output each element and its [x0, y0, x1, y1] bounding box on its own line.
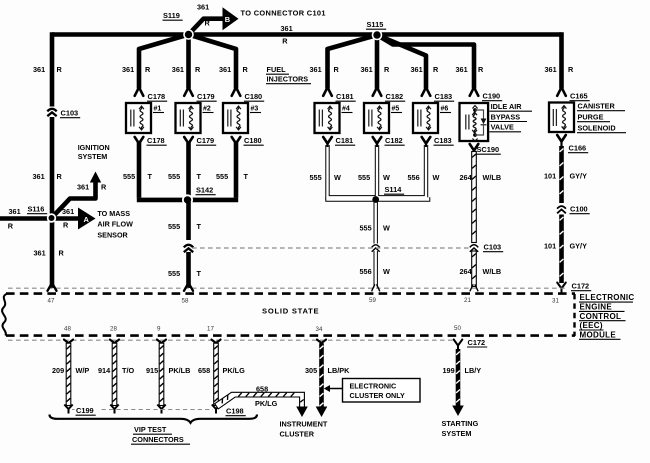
- wire: canister vertical drop from bus: [559, 32, 564, 88]
- pin 47: [48, 298, 55, 305]
- EEC module top edge (black dashed): [6, 292, 575, 295]
- svg-text:GY/Y: GY/Y: [570, 241, 588, 250]
- svg-text:W/LB: W/LB: [483, 267, 502, 276]
- label: S116: [27, 205, 47, 214]
- EEC module left torn edge: [2, 294, 7, 336]
- wire: S115 to idle air bypass valve: [377, 35, 474, 89]
- svg-text:555: 555: [216, 172, 228, 181]
- svg-text:361: 361: [310, 65, 322, 74]
- connector C181 (bottom of injector 4): [323, 136, 355, 145]
- svg-text:C199: C199: [76, 406, 94, 415]
- label: 101 GY/Y upper: [544, 171, 587, 180]
- svg-text:C180: C180: [244, 136, 262, 145]
- label: 361 R on ignition branch: [77, 183, 107, 192]
- wire: 914 T/O VIP test: [112, 343, 117, 405]
- pin 59: [369, 297, 376, 304]
- connector C100 (inline chevrons): [557, 205, 590, 214]
- svg-text:STARTING: STARTING: [442, 419, 479, 428]
- label: R at arrow B: [205, 19, 211, 28]
- wire: 101 GY/Y from C166 to C100: [559, 146, 564, 203]
- connector C172 (bottom, pin 50): [454, 338, 488, 350]
- svg-text:658: 658: [256, 385, 268, 394]
- connector flare at EEC bottom for wire 209: [64, 340, 73, 343]
- text: FUEL INJECTORS heading: [266, 65, 311, 84]
- label: 555 T injector 3: [216, 172, 249, 181]
- svg-text:T: T: [197, 172, 202, 181]
- wire: S116 to mass air flow sensor arrow A: [52, 208, 96, 230]
- wire: 658 PK/LG jumper C198 to instrument cluster: [215, 392, 308, 417]
- connector C178 (bottom of injector 1): [135, 136, 167, 145]
- svg-text:VIP TEST: VIP TEST: [134, 425, 167, 434]
- svg-text:C183: C183: [435, 92, 453, 101]
- svg-text:B: B: [225, 15, 230, 24]
- svg-text:INJECTORS: INJECTORS: [267, 75, 309, 84]
- text: ELECTRONIC ENGINE CONTROL (EEC) MODULE: [579, 293, 635, 339]
- connector C181 (top of injector 4): [323, 87, 356, 101]
- svg-text:555: 555: [310, 173, 322, 182]
- label: 361 R column 6: [361, 65, 391, 74]
- connector C182 (top of injector 5): [373, 87, 406, 101]
- EEC module right edge (black dashed): [573, 294, 575, 336]
- svg-text:(EEC): (EEC): [580, 321, 603, 330]
- svg-text:361: 361: [33, 65, 45, 74]
- svg-text:S142: S142: [196, 186, 213, 195]
- label: 101 GY/Y lower: [544, 241, 587, 250]
- svg-text:GY/Y: GY/Y: [570, 171, 588, 180]
- label: 199 LB/Y: [443, 366, 482, 375]
- label: 209 W/P: [52, 366, 89, 375]
- svg-text:9: 9: [157, 326, 161, 333]
- label: 914 T/O: [98, 366, 134, 375]
- connector C166 (below canister purge solenoid): [557, 135, 588, 153]
- connector C183 (top of injector 6): [422, 87, 455, 101]
- svg-text:361: 361: [172, 65, 184, 74]
- svg-text:555: 555: [360, 224, 372, 233]
- label: 361 above arrow A wire: [62, 207, 74, 216]
- svg-text:BYPASS: BYPASS: [491, 112, 521, 121]
- svg-text:W/LB: W/LB: [483, 173, 502, 182]
- svg-text:SOLID STATE: SOLID STATE: [262, 307, 319, 316]
- svg-text:R: R: [195, 65, 201, 74]
- svg-text:W: W: [334, 173, 341, 182]
- svg-text:361: 361: [411, 65, 423, 74]
- wire: 915 PK/LB VIP test: [159, 343, 164, 405]
- stub: injector 5 connector stem: [376, 144, 378, 148]
- wire: 199 LB/Y to starting system: [452, 349, 464, 416]
- connector flare: pin 47 (361 R wire): [48, 285, 57, 291]
- svg-text:31: 31: [552, 298, 559, 305]
- svg-text:A: A: [84, 215, 90, 224]
- connector C178 (top of injector 1): [135, 87, 168, 101]
- svg-text:C178: C178: [148, 92, 166, 101]
- connector: inline chevrons on 555 wire at C103 line: [184, 245, 193, 252]
- svg-text:T: T: [244, 172, 249, 181]
- svg-text:ELECTRONIC: ELECTRONIC: [350, 382, 397, 391]
- svg-text:34: 34: [316, 326, 323, 333]
- connector flare at EEC bottom for wire 658: [212, 340, 221, 343]
- label: 915 PK/LB: [146, 366, 190, 375]
- svg-text:W: W: [383, 267, 390, 276]
- svg-text:58: 58: [182, 298, 189, 305]
- svg-text:T: T: [148, 172, 153, 181]
- pin 21: [464, 297, 471, 304]
- svg-text:C165: C165: [570, 92, 588, 101]
- connector at bottom of wire 209: [64, 405, 72, 414]
- fuel injector #6 C183: [413, 103, 451, 133]
- label: 361 R left column mid: [33, 172, 63, 181]
- svg-text:556: 556: [360, 267, 372, 276]
- wire: injector 3 output to S142 bus: [234, 143, 239, 198]
- wire: 209 W/P VIP test: [66, 343, 71, 405]
- label: 555 W below S114: [360, 224, 391, 233]
- EEC module connector face (top gray dashed): [8, 287, 568, 289]
- svg-text:361: 361: [62, 207, 74, 216]
- label: 305 LB/PK: [305, 366, 350, 375]
- svg-text:R: R: [243, 65, 249, 74]
- svg-text:361: 361: [361, 65, 373, 74]
- svg-text:SENSOR: SENSOR: [97, 230, 128, 239]
- svg-text:658: 658: [198, 366, 210, 375]
- svg-text:199: 199: [443, 366, 455, 375]
- pin 48: [64, 326, 71, 333]
- svg-text:555: 555: [168, 222, 180, 231]
- svg-text:C181: C181: [336, 92, 354, 101]
- pin 58: [182, 298, 189, 305]
- svg-text:S116: S116: [28, 205, 45, 214]
- svg-text:915: 915: [146, 366, 158, 375]
- svg-text:47: 47: [48, 298, 55, 305]
- wire: 264 W/LB from SC190 down to EEC pin 21: [472, 152, 477, 287]
- label: 361 at arrow B: [197, 3, 209, 12]
- label: 361 at left edge: [9, 207, 21, 216]
- svg-text:R: R: [478, 65, 484, 74]
- svg-text:R: R: [568, 65, 574, 74]
- svg-text:C179: C179: [197, 92, 215, 101]
- wire: main 361 bus from left corner to canister corner: [52, 32, 562, 37]
- svg-text:ELECTRONIC: ELECTRONIC: [580, 293, 635, 302]
- wire: 101 GY/Y from C100 to C172: [559, 215, 564, 284]
- connector C190 (top of idle air bypass valve): [470, 87, 503, 100]
- wire: 361 feed from left edge into S116: [0, 216, 50, 221]
- label: 361 R left column lower: [34, 249, 65, 258]
- svg-text:FUEL: FUEL: [267, 65, 287, 74]
- svg-text:S115: S115: [367, 20, 384, 29]
- label: 555 T below S142: [168, 222, 202, 231]
- text: INSTRUMENT CLUSTER: [280, 420, 328, 439]
- svg-text:361: 361: [122, 65, 134, 74]
- wire: injector 2 output to S142 bus: [186, 143, 191, 198]
- wire: S119 to connector C101 arrow B: [189, 19, 224, 35]
- connector C103 (inline on left 361 wire): [47, 107, 81, 118]
- wire: left vertical 361 R main feed x=52: [50, 32, 55, 288]
- connector flare at EEC bottom for wire 915: [157, 340, 166, 343]
- svg-text:361: 361: [545, 65, 557, 74]
- fuel injector #4 C181: [315, 103, 353, 133]
- svg-text:MODULE: MODULE: [580, 330, 617, 339]
- text: SOLID STATE: [262, 307, 319, 316]
- svg-text:TO MASS: TO MASS: [97, 209, 130, 218]
- svg-text:PURGE: PURGE: [578, 113, 604, 122]
- svg-text:#1: #1: [154, 106, 162, 113]
- stub: injector 4 connector stem: [326, 144, 328, 148]
- svg-text:R: R: [334, 65, 340, 74]
- svg-text:50: 50: [454, 325, 461, 332]
- svg-text:R: R: [101, 183, 107, 192]
- svg-text:361: 361: [197, 3, 209, 12]
- svg-text:AIR FLOW: AIR FLOW: [97, 220, 133, 229]
- svg-text:R: R: [433, 65, 439, 74]
- text: VIP TEST CONNECTORS: [131, 425, 190, 444]
- wire: white wires from injectors 4,5,6 joining at S114 bus: [328, 145, 429, 244]
- svg-text:#5: #5: [392, 106, 400, 113]
- svg-text:361: 361: [9, 207, 21, 216]
- connector flare at EEC bottom for wire 914: [110, 340, 119, 343]
- label: S115: [366, 20, 386, 29]
- svg-text:#2: #2: [203, 106, 211, 113]
- connector C179 (top of injector 2): [184, 87, 217, 101]
- pin 50: [454, 325, 461, 332]
- connector flare: pin 58 (555 T wire): [184, 285, 193, 291]
- label: 361 R column 2: [122, 65, 151, 74]
- wire: S115 to injector 6: [377, 35, 426, 89]
- arrow: callout to 305 wire: [324, 385, 342, 392]
- svg-text:361: 361: [77, 183, 89, 192]
- pin 31: [552, 298, 559, 305]
- svg-text:264: 264: [460, 267, 473, 276]
- svg-text:C100: C100: [570, 205, 588, 214]
- connector C179 (bottom of injector 2): [184, 136, 216, 145]
- svg-text:C182: C182: [385, 136, 403, 145]
- pin 28: [110, 326, 117, 333]
- svg-text:SC190: SC190: [477, 145, 500, 154]
- svg-text:R: R: [282, 37, 288, 46]
- splice node S142: [182, 194, 193, 205]
- svg-text:R: R: [384, 65, 390, 74]
- connector C172 (right, pin 31): [557, 282, 591, 294]
- svg-text:C179: C179: [197, 136, 215, 145]
- wire: S119 to injector 3: [189, 35, 237, 89]
- label: 555 W injector 5: [358, 173, 390, 182]
- svg-text:SYSTEM: SYSTEM: [442, 429, 472, 438]
- label: 556 W injector 6: [408, 173, 440, 182]
- fuel injector #5 C182: [364, 103, 402, 133]
- svg-text:W: W: [433, 173, 440, 182]
- svg-text:555: 555: [168, 172, 180, 181]
- svg-text:T: T: [197, 269, 202, 278]
- text: TO CONNECTOR C101: [241, 8, 326, 17]
- svg-text:T: T: [197, 222, 202, 231]
- splice node S116: [47, 213, 56, 222]
- svg-text:C178: C178: [147, 136, 165, 145]
- svg-text:556: 556: [408, 173, 420, 182]
- label: 658 PK/LG: [198, 366, 245, 375]
- wire: S116 to ignition system arrow: [52, 172, 102, 219]
- svg-text:R: R: [59, 249, 65, 258]
- connector line C103 (dashed): [192, 247, 470, 249]
- label: 555 T injector 1: [123, 172, 153, 181]
- svg-text:CLUSTER ONLY: CLUSTER ONLY: [350, 391, 405, 400]
- connector flare at EEC bottom for wire 305: [317, 340, 326, 343]
- wire: S115 to injector 4: [328, 35, 378, 89]
- svg-text:W: W: [383, 224, 390, 233]
- svg-text:28: 28: [110, 326, 117, 333]
- svg-text:C198: C198: [226, 407, 244, 416]
- label: R below arrow A wire: [63, 221, 69, 230]
- svg-text:PK/LB: PK/LB: [169, 366, 191, 375]
- label: 361 R column 1: [33, 65, 63, 74]
- svg-text:209: 209: [52, 366, 64, 375]
- label: 361 R column 3: [172, 65, 201, 74]
- label: S142: [196, 186, 216, 195]
- label: 555 W injector 4: [310, 173, 342, 182]
- svg-text:R: R: [145, 65, 151, 74]
- splice node S115: [372, 30, 383, 41]
- connector C180 (top of injector 3): [232, 87, 265, 101]
- connector C180 (bottom of injector 3): [232, 136, 264, 145]
- svg-text:361: 361: [34, 249, 46, 258]
- label: 555 T injector 2: [168, 172, 202, 181]
- fuel injector #1 C178: [126, 103, 164, 133]
- label: 361 R column 5: [310, 65, 340, 74]
- wire: S115 to injector 5: [375, 35, 380, 89]
- svg-text:TO CONNECTOR C101: TO CONNECTOR C101: [241, 8, 326, 17]
- fuel injector #3 C180: [223, 103, 261, 133]
- label: R at left edge: [8, 222, 14, 231]
- label: S114: [384, 185, 404, 194]
- svg-text:PK/LG: PK/LG: [223, 366, 246, 375]
- wire: 658 PK/LG VIP test: [214, 343, 219, 405]
- svg-text:59: 59: [369, 297, 376, 304]
- svg-text:W/P: W/P: [76, 366, 90, 375]
- wire: S142 bus: [137, 198, 238, 203]
- wire: injector 1 output to S142 bus: [137, 143, 142, 198]
- label: 361 R column 7: [411, 65, 440, 74]
- svg-text:48: 48: [64, 326, 71, 333]
- pin 34: [316, 326, 323, 333]
- svg-text:21: 21: [464, 297, 471, 304]
- connector flare: pin 21 (264 W/LB wire): [470, 285, 478, 291]
- label: 361 R column 9: [545, 65, 575, 74]
- svg-text:C182: C182: [386, 92, 404, 101]
- label: 555 T above EEC: [168, 269, 202, 278]
- label: R on bus: [282, 37, 288, 46]
- fuel injector #2 C179: [176, 103, 214, 133]
- label: 361 on bus: [281, 24, 293, 33]
- text: STARTING SYSTEM: [442, 419, 479, 438]
- label: 361 R column 8: [456, 65, 485, 74]
- pin 9: [157, 326, 161, 333]
- svg-text:CONTROL: CONTROL: [580, 312, 622, 321]
- svg-text:17: 17: [207, 326, 214, 333]
- idle air bypass valve C190: [460, 103, 489, 141]
- svg-text:C103: C103: [484, 243, 502, 252]
- svg-text:C183: C183: [434, 136, 452, 145]
- svg-text:R: R: [205, 19, 211, 28]
- connector C183 (bottom of injector 6): [422, 136, 454, 145]
- svg-text:C166: C166: [569, 144, 587, 153]
- svg-text:S114: S114: [385, 185, 403, 194]
- svg-text:IGNITION: IGNITION: [78, 143, 110, 152]
- svg-text:VALVE: VALVE: [491, 123, 514, 132]
- svg-text:R: R: [8, 222, 14, 231]
- svg-text:PK/LG: PK/LG: [255, 399, 278, 408]
- svg-text:C180: C180: [245, 92, 263, 101]
- svg-text:361: 361: [219, 65, 231, 74]
- connector at bottom of wire 915: [157, 405, 165, 414]
- svg-text:SYSTEM: SYSTEM: [78, 152, 108, 161]
- svg-text:IDLE AIR: IDLE AIR: [491, 102, 523, 111]
- wire: S119 to injector 2: [186, 35, 191, 89]
- connector at bottom of wire 658: [212, 405, 220, 414]
- svg-text:914: 914: [98, 366, 111, 375]
- EEC module connector face (bottom gray dashed): [8, 339, 454, 341]
- svg-text:361: 361: [456, 65, 468, 74]
- connector C165 (top of canister purge solenoid): [557, 87, 590, 100]
- connector flare: pin 59 (556 W wire): [372, 285, 380, 291]
- svg-text:R: R: [57, 172, 63, 181]
- label: 264 W/LB lower: [460, 267, 502, 276]
- svg-text:S119: S119: [163, 11, 180, 20]
- svg-text:264: 264: [460, 173, 473, 182]
- label: C103 mid: [483, 243, 503, 252]
- svg-text:CONNECTORS: CONNECTORS: [132, 435, 184, 444]
- label: S119: [163, 11, 183, 20]
- svg-text:W: W: [383, 173, 390, 182]
- svg-text:R: R: [63, 221, 69, 230]
- svg-text:#6: #6: [441, 106, 449, 113]
- EEC module bottom edge (black dashed): [6, 334, 575, 337]
- wire: S119 to injector 1: [139, 35, 189, 89]
- label: 658 PK/LG jumper: [255, 385, 278, 409]
- svg-text:C181: C181: [336, 136, 354, 145]
- connector: inline chevrons on 264 wire at C103 line: [470, 245, 478, 252]
- pin 17: [207, 326, 214, 333]
- callout box: ELECTRONIC CLUSTER ONLY: [343, 379, 421, 403]
- text: CANISTER PURGE SOLENOID: [577, 102, 626, 133]
- svg-text:R: R: [57, 65, 63, 74]
- svg-text:CANISTER: CANISTER: [578, 102, 616, 111]
- splice node S114: [372, 196, 379, 203]
- svg-text:INSTRUMENT: INSTRUMENT: [280, 420, 328, 429]
- svg-text:555: 555: [358, 173, 370, 182]
- svg-text:LB/Y: LB/Y: [465, 366, 482, 375]
- svg-text:C172: C172: [572, 282, 590, 291]
- svg-text:C190: C190: [483, 92, 501, 101]
- label: C199: [75, 406, 100, 416]
- splice node S119: [183, 29, 194, 40]
- svg-text:#3: #3: [251, 106, 259, 113]
- svg-text:LB/PK: LB/PK: [328, 366, 351, 375]
- wire: S114 down to EEC pin 59 (white): [374, 251, 378, 288]
- svg-text:C172: C172: [468, 338, 486, 347]
- arrow B to connector C101: [223, 7, 239, 30]
- svg-text:CLUSTER: CLUSTER: [280, 430, 315, 439]
- text: IDLE AIR BYPASS VALVE: [490, 102, 533, 132]
- wire: S142 down to EEC pin 58: [186, 202, 191, 288]
- connector C182 (bottom of injector 5): [373, 136, 405, 145]
- wire: 305 LB/PK to instrument cluster: [316, 343, 328, 417]
- svg-text:101: 101: [544, 171, 556, 180]
- canister purge solenoid C165: [549, 103, 574, 133]
- svg-text:C103: C103: [61, 109, 79, 118]
- svg-text:#4: #4: [342, 106, 350, 113]
- connector line C199-C198 (dashed): [72, 409, 213, 411]
- svg-text:SOLENOID: SOLENOID: [578, 124, 616, 133]
- label: 361 R column 4: [219, 65, 249, 74]
- svg-text:T/O: T/O: [122, 366, 134, 375]
- brace: VIP test connectors: [50, 415, 258, 423]
- text: TO MASS AIR FLOW SENSOR: [97, 209, 133, 239]
